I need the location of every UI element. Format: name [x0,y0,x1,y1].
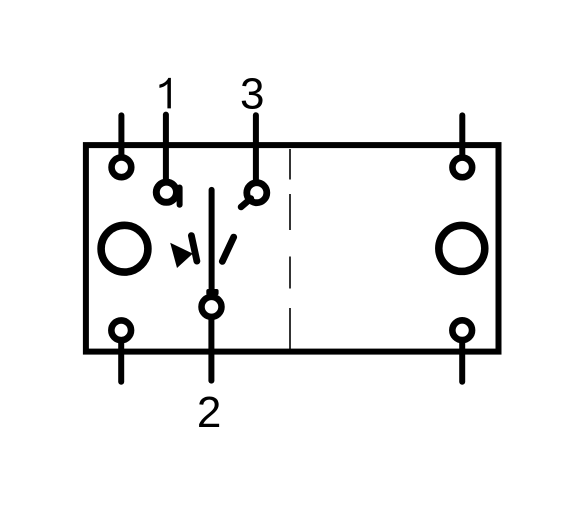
left mounting hole [101,225,148,272]
momentary action arrow [170,243,193,268]
terminal 1 lead wire [163,115,169,192]
top-left mounting terminal [112,157,132,177]
svg-text:2: 2 [197,388,221,437]
terminal 2 lead wire [208,307,214,381]
switch lever (common pole) [209,190,215,293]
top-right mounting terminal lead [459,115,465,167]
terminal 3 lead wire [253,115,259,193]
bottom-right mounting terminal lead [459,330,465,382]
bottom-left mounting terminal lead [118,330,124,382]
dashed center line (pole divider) [289,149,291,350]
switch body outline [86,145,499,352]
bottom-left mounting terminal [111,320,131,340]
top-left mounting terminal lead [118,115,124,167]
alternate throw position stroke [222,237,233,261]
right mounting hole [439,225,485,271]
bottom-right mounting terminal [452,320,472,340]
terminal 3 stationary contact [241,183,267,207]
top-right mounting terminal [452,158,472,178]
terminal 2 contact ring [202,297,222,317]
label 1 [159,78,171,109]
actuator stop bar [191,236,197,262]
lever collar [206,289,218,295]
terminal 1 stationary contact [156,182,179,205]
svg-text:3: 3 [240,70,264,119]
